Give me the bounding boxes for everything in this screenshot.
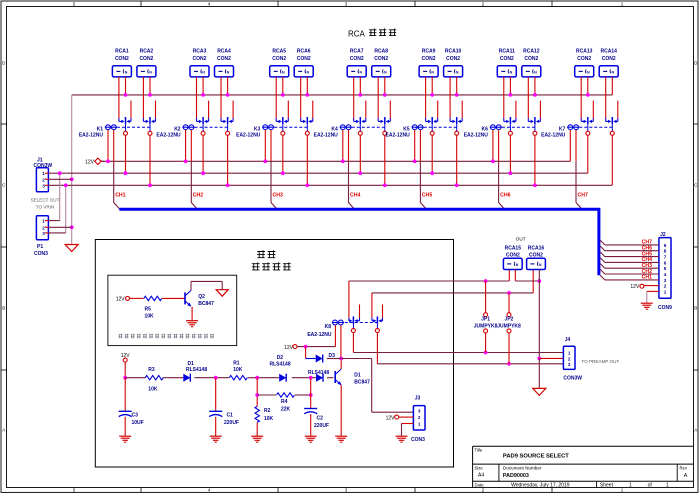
ground symbol Q2 collector [216,290,228,297]
wire ground to J4 pin2 [539,357,563,359]
transistor Q2 BC847 [185,290,214,307]
wire RCA6 ground pin to ground bus [305,77,309,97]
wire relay K3 contact-b NC stub [312,101,314,119]
relay K6 coil EA2-12NU [464,125,502,139]
svg-text:N: N [384,70,387,74]
svg-text:2: 2 [664,284,667,289]
connector RCA9 CON2 [419,49,438,77]
svg-text:CON3W: CON3W [563,376,582,382]
connector RCA2 CON2 [137,49,156,77]
wire K2 coil pin2 to CH2 bus entry [191,130,197,209]
wire K3 contact-b NO to line C [305,135,309,187]
ground symbol at J2 [641,303,653,309]
relay K5 coil EA2-12NU [386,125,424,139]
svg-text:2: 2 [418,415,421,420]
svg-text:A4: A4 [478,473,484,479]
net label CH3 [273,193,283,199]
svg-text:EA2-12NU: EA2-12NU [314,132,339,138]
svg-text:RCA7: RCA7 [350,49,364,55]
svg-text:EA2-12NU: EA2-12NU [79,132,104,138]
wire K8 coil pin2 down to node [339,325,343,360]
wire relay K7 contact-b NC stub [617,101,619,119]
capacitor C3 10UF [119,378,144,437]
relay K3 contact b [301,117,313,135]
wire RCA1 signal pin to contact [118,77,120,119]
svg-text:2: 2 [42,177,45,182]
svg-text:12V: 12V [85,160,95,166]
svg-text:CON2: CON2 [446,56,460,62]
wire K4 coil pin1 to 12V rail [341,130,345,163]
wire relay K1 contact-a NC stub [130,101,132,119]
svg-text:CON2: CON2 [500,56,514,62]
svg-text:C2: C2 [317,416,324,422]
svg-text:N: N [307,70,310,74]
svg-text:JP2: JP2 [505,317,514,323]
wire RCA3 signal pin to contact [196,77,198,119]
svg-text:BC847: BC847 [198,301,214,307]
svg-text:R1: R1 [233,361,240,367]
wire K2 coil pin1 to 12V rail [184,130,188,163]
connector RCA1 CON2 [112,49,131,77]
connector RCA10 CON2 [444,49,463,77]
wire 12V down to rail [123,362,127,380]
terminal 12V lower circuit [121,353,131,362]
wire K6 coil pin2 to CH6 bus entry [499,130,505,209]
option block title text [252,250,291,270]
net label CH2 at J2 [642,269,652,275]
wire RCA3 ground pin to ground bus [201,77,205,97]
connector J4 CON3W [563,337,582,382]
junction C1 node [214,376,218,380]
wire 12V to K8 coil [297,345,335,349]
inner note box outline [108,275,237,345]
svg-text:RCA: RCA [348,30,366,39]
svg-text:J2: J2 [660,232,666,238]
wire relay K3 contact-a NC stub [287,101,289,119]
wire bus to J2 pin 8 net CH6 [600,246,659,251]
net label CH5 at J2 [642,251,652,257]
junction J1 pin2 ground [49,177,74,181]
net label CH4 [350,193,360,199]
svg-text:D1: D1 [354,373,361,379]
svg-text:3: 3 [42,231,45,236]
wire RCA6 signal pin to contact [300,77,302,119]
wire relay K7 contact-a NC stub [592,101,594,119]
terminal 12V at J3 [386,415,414,421]
wire RCA4 ground pin to ground bus [226,77,230,97]
svg-text:TO PREAMP OUT: TO PREAMP OUT [581,359,619,364]
net label CH5 [422,193,432,199]
svg-text:RLS4148: RLS4148 [186,367,207,373]
main rail horizontal segments [125,377,333,379]
svg-text:J4: J4 [565,337,571,343]
svg-text:1: 1 [568,351,571,356]
svg-text:CH7: CH7 [578,193,588,199]
svg-text:1: 1 [42,171,45,176]
wire RCA7 ground pin to ground bus [358,77,362,97]
net label CH6 at J2 [642,246,652,252]
resistor R3 10K [145,367,163,393]
svg-text:D1: D1 [188,361,195,367]
svg-text:10UF: 10UF [132,420,144,426]
wire relay K1 contact-b NC stub [155,101,157,119]
svg-text:3: 3 [418,409,421,414]
svg-text:PAD9 SOURCE SELECT: PAD9 SOURCE SELECT [503,453,569,459]
relay K3 dashed link [274,126,307,128]
svg-text:EA2-12NU: EA2-12NU [236,132,261,138]
wire J1 pin3 to P1 pin3 vertical [49,183,68,232]
net label CH4 at J2 [642,257,652,263]
svg-text:RCA5: RCA5 [272,49,286,55]
wire K5 coil pin2 to CH5 bus entry [420,130,426,209]
relay K4 coil EA2-12NU [314,125,352,139]
resistor R5 10K [144,296,162,319]
svg-text:R4: R4 [281,399,288,405]
ground symbol Q1 emitter [335,436,347,442]
svg-text:CON2: CON2 [139,56,153,62]
power symbol 12V rail [85,158,104,166]
svg-text:8: 8 [664,249,667,254]
svg-text:N: N [587,70,590,74]
svg-text:10K: 10K [148,387,158,393]
svg-text:Sheet: Sheet [600,483,614,489]
svg-text:2: 2 [568,356,571,361]
svg-text:D2: D2 [277,355,284,361]
svg-text:N: N [510,70,513,74]
svg-text:EA2-12NU: EA2-12NU [541,132,566,138]
svg-text:TO VRIN: TO VRIN [36,205,55,210]
wire RCA5 ground pin to ground bus [281,77,285,97]
wire J3 pin1 to ground [402,424,414,437]
relay K7 contact a [581,117,593,135]
wire RCA14 signal pin to contact [605,77,607,119]
ground symbol Q2 emitter [186,321,198,327]
relay K3 contact a [276,117,288,135]
wire Q1 collector to node [340,359,342,370]
relay K8 dashed link [345,322,378,324]
svg-text:6: 6 [664,260,667,265]
wire RCA9 ground pin to ground bus [430,77,434,97]
svg-text:CH3: CH3 [273,193,283,199]
ground symbol R2 [251,436,263,442]
wire bus to J2 pin 3 net CH1 [600,275,659,280]
12V rail horizontal [101,160,570,162]
jumper JP2 JUMPYK8 [497,293,521,364]
svg-text:Rev: Rev [680,465,688,470]
svg-text:B: B [2,306,5,311]
ground symbol J3 [396,436,408,442]
wire relay K6 contact-a NC stub [515,101,517,119]
net label CH6 [500,193,510,199]
relay K2 dashed link [195,126,228,128]
wire R5 to Q2 base [162,297,185,299]
wire K1 coil pin2 to CH1 bus entry [114,130,120,209]
wire bus to J2 pin 4 net CH2 [600,269,659,274]
svg-text:CON2: CON2 [193,56,207,62]
svg-text:C3: C3 [132,413,139,419]
relay K1 contact a [119,117,131,135]
wire RCA12 signal pin to contact [527,77,529,119]
relay K5 contact a [426,117,438,135]
svg-text:1: 1 [418,422,421,427]
text OUT label [516,236,526,241]
svg-text:N: N [125,70,128,74]
svg-text:RCA3: RCA3 [193,49,207,55]
wire K7 contact-b NO to line C [611,135,613,185]
wire line B' output R [372,270,533,295]
diode D3 flyback [306,347,342,363]
wire RCA10 signal pin to contact [449,77,451,119]
wire RCA1 ground pin to ground bus [124,77,128,97]
ground symbol C1 [210,436,222,442]
text TO PREAMP OUT [581,359,619,364]
junction P1 pin2 ground [49,225,74,229]
connector RCA5 CON2 [270,49,289,77]
svg-text:J3: J3 [415,396,421,402]
svg-text:RLS4148: RLS4148 [270,362,291,368]
svg-text:of: of [648,483,653,489]
wire RCA11 signal pin to contact [503,77,505,119]
svg-text:C1: C1 [227,413,234,419]
junction C2 node [309,376,313,380]
wire line A1 output L [349,270,509,283]
svg-text:CON3: CON3 [411,437,425,443]
net label CH7 at J2 [642,240,652,246]
ground symbol below P1 [65,245,78,252]
connector J3 CON3 [411,396,425,443]
svg-text:3: 3 [664,278,667,283]
ground bus top horizontal [72,94,613,96]
svg-text:RCA4: RCA4 [217,49,231,55]
wire RCA13 signal pin to contact [580,77,582,119]
svg-text:Title: Title [475,448,483,453]
relay K6 dashed link [502,126,535,128]
svg-text:10K: 10K [264,416,274,422]
wire relay K4 contact-b NC stub [389,101,391,119]
svg-text:CON2: CON2 [529,253,543,259]
relay K1 contact b [143,117,155,135]
net label CH3 at J2 [642,263,652,269]
svg-text:RCA8: RCA8 [374,49,388,55]
wire K6 coil pin1 to 12V rail [491,130,495,163]
diode D2 RLS4148 [270,355,291,382]
title block [473,446,694,488]
svg-text:5: 5 [664,266,667,271]
wire RCA9 signal pin to contact [425,77,427,119]
relay K4 contact a [354,117,366,135]
svg-text:2: 2 [42,225,45,230]
wire line C' to J4 pin1 [353,351,563,355]
svg-text:7: 7 [664,255,667,260]
resistor R4 22K [257,393,312,413]
svg-text:PAD90003: PAD90003 [503,473,529,479]
svg-text:EA2-12NU: EA2-12NU [386,132,411,138]
svg-text:RCA2: RCA2 [140,49,154,55]
svg-text:OUT: OUT [516,236,526,241]
wire RCA16 ground down [537,270,541,361]
junction R2 node [255,376,259,380]
relay K8 contact a [349,281,360,333]
svg-text:RCA12: RCA12 [523,49,540,55]
svg-text:N: N [202,70,205,74]
relay K7 dashed link [579,126,612,128]
svg-text:N: N [539,263,542,267]
wire bus to J2 pin 5 net CH3 [600,264,659,269]
svg-text:SELECT OUT: SELECT OUT [31,198,60,203]
relay K5 contact b [450,117,462,135]
wire K6 contact-a NO to line A [509,135,513,175]
relay K3 coil EA2-12NU [236,125,274,139]
svg-text:3: 3 [568,362,571,367]
svg-text:CH1: CH1 [642,275,652,281]
wire J1 pin1 to P1 pin1 vertical [49,171,62,220]
svg-text:RCA15: RCA15 [505,246,522,252]
connector RCA15 CON2 [503,246,522,270]
wire RCA8 ground pin to ground bus [383,77,387,97]
relay K2 contact a [197,117,209,135]
relay K8 contact b [372,293,383,333]
relay K2 coil EA2-12NU [156,125,194,139]
wire ground bus left drop to J1 pin2 [71,95,73,245]
wire K8 coil pin1 down to 12V [334,325,336,346]
wire RCA4 signal pin to contact [220,77,222,119]
diode D1 RLS4148 [183,361,207,382]
wire relay K5 contact-a NC stub [437,101,439,119]
wire Q2 collector to ground right [191,281,222,290]
svg-text:3: 3 [42,183,45,188]
svg-text:EA2-12NU: EA2-12NU [464,132,489,138]
wire K7 coil pin1 to 12V rail [569,130,571,161]
wire K2 contact-b NO to line C [226,135,230,187]
wire K2 contact-a NO to line A [201,135,205,175]
svg-text:A: A [684,473,688,479]
wire RCA12 ground pin to ground bus [533,77,537,97]
wire relay K6 contact-b NC stub [539,101,541,119]
svg-text:JP1: JP1 [481,317,490,323]
svg-text:CON3: CON3 [34,251,48,257]
svg-text:10K: 10K [145,313,155,319]
ground symbol C2 [305,436,317,442]
svg-text:R5: R5 [145,306,152,312]
wire RCA2 ground pin to ground bus [148,77,152,97]
relay K7 coil EA2-12NU [541,125,579,139]
connector J1 CON3W [34,158,53,192]
svg-text:RCA1: RCA1 [115,49,129,55]
svg-text:CON9: CON9 [658,305,672,311]
wire K4 contact-b NO to line C [383,135,387,187]
wire bus to J2 pin 9 net CH7 [600,240,659,245]
svg-text:R2: R2 [264,408,271,414]
wire RCA2 signal pin to contact [142,77,144,119]
svg-text:220UF: 220UF [224,420,239,426]
jumper JP1 JUMPYK8 [474,281,498,353]
wire K5 contact-a NO to line A [430,135,434,175]
wire RCA14 ground pin to ground bus [611,77,613,95]
resistor R2 10K [255,378,274,437]
transistor Q1 BC847 [335,369,370,386]
svg-text:CON2: CON2 [577,56,591,62]
resistor R1 10K [229,361,247,380]
connector P1 CON3 [34,216,49,257]
relay K8 contact b NC stub [382,304,384,317]
relay K5 dashed link [424,126,457,128]
svg-text:Wednesday, July 17, 2019: Wednesday, July 17, 2019 [511,483,570,489]
wire K3 contact-a NO to line A [281,135,285,175]
svg-text:EA2-12NU: EA2-12NU [307,332,332,338]
svg-text:RCA10: RCA10 [445,49,462,55]
svg-text:N: N [456,70,459,74]
svg-text:CON2: CON2 [272,56,286,62]
svg-text:CON2: CON2 [524,56,538,62]
svg-text:RCA9: RCA9 [422,49,436,55]
svg-text:N: N [149,70,152,74]
wire relay K2 contact-b NC stub [232,101,234,119]
net label CH1 at J2 [642,275,652,281]
svg-text:220UF: 220UF [314,423,329,429]
wire RCA13 ground pin to ground bus [586,77,590,97]
wire node to J3 pin3 [341,359,413,413]
svg-text:RCA6: RCA6 [297,49,311,55]
power symbol 12V at J2 pin2 [630,284,659,290]
wire RCA7 signal pin to contact [353,77,355,119]
audio bus line C (J1 pin3) [49,184,613,186]
wire Q2 emitter to ground [191,306,192,320]
connector J2 CON9 [658,232,672,311]
svg-text:BC847: BC847 [354,380,370,386]
connector RCA4 CON2 [215,49,234,77]
connector RCA11 CON2 [497,49,516,77]
net label CH7 [578,193,588,199]
svg-text:CON2: CON2 [374,56,388,62]
relay K8 coil EA2-12NU [307,320,344,338]
wire relay K4 contact-a NC stub [365,101,367,119]
svg-text:CON2: CON2 [297,56,311,62]
svg-text:RCA11: RCA11 [499,49,515,55]
text SELECT OUT TO VRIN [31,198,60,210]
relay K6 contact b [528,117,540,135]
terminal 12V K8 [284,345,297,351]
svg-text:CON2: CON2 [217,56,231,62]
relay K4 contact b [378,117,390,135]
svg-text:N: N [282,70,285,74]
wire relay K2 contact-a NC stub [208,101,210,119]
svg-text:22K: 22K [281,407,291,413]
wire K3 coil pin1 to 12V rail [263,130,267,163]
connector RCA12 CON2 [522,49,541,77]
wire K1 contact-a NO to line A [124,135,128,175]
net label CH2 [193,193,203,199]
relay K7 contact b [606,117,618,135]
svg-text:Q2: Q2 [198,294,205,300]
svg-text:CH5: CH5 [422,193,432,199]
svg-text:12V: 12V [116,297,126,303]
svg-text:CON2: CON2 [350,56,364,62]
svg-text:RCA14: RCA14 [600,49,617,55]
capacitor C2 220UF [304,378,329,437]
wire K7 coil pin2 to CH7 bus entry [576,130,582,209]
wire bus to J2 pin 6 net CH4 [600,258,659,263]
svg-text:Date:: Date: [475,482,485,487]
svg-text:D3: D3 [329,353,336,359]
relay K8 contact a NC stub [359,304,361,317]
ground symbol C3 [119,436,131,442]
svg-text:N: N [227,70,230,74]
wire K8 NO2 down to line D' [376,333,378,364]
connector RCA14 CON2 [599,49,618,77]
svg-text:K8: K8 [325,324,332,330]
connector RCA7 CON2 [347,49,366,77]
svg-text:12V: 12V [284,345,294,351]
